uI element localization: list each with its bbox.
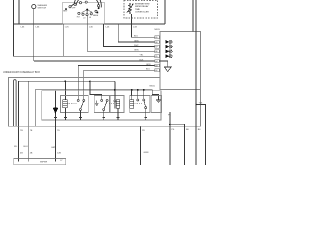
- relay C coil bottom stub: [117, 108, 119, 120]
- wire bottom mid: [139, 126, 141, 165]
- bottom left wires: [19, 105, 206, 166]
- inner relay assembly box: [42, 91, 161, 120]
- bottom wire labels row3: [20, 153, 61, 155]
- MICU box: [160, 32, 201, 90]
- bus connector labels: [21, 27, 138, 29]
- relay coil A riser to bus: [64, 81, 66, 100]
- bus2 branch down: [27, 81, 29, 126]
- wire bottom 2: [27, 126, 29, 158]
- svg-text:GRN: GRN: [134, 50, 139, 52]
- svg-text:UNDER-DASH FUSE/RELAY BOX: UNDER-DASH FUSE/RELAY BOX: [3, 71, 40, 74]
- diode: [53, 107, 57, 113]
- fuse box bus: [19, 81, 115, 126]
- wire labels (color codes) near MICU: [134, 36, 151, 71]
- wire row4 from wiper switch common: [87, 9, 154, 52]
- wire row2: [118, 24, 154, 42]
- mini box around right ground: [151, 96, 162, 113]
- intermittent controller dashed box: [124, 1, 158, 19]
- svg-text:B3: B3: [155, 65, 157, 67]
- wiper switch contact circles: [69, 1, 100, 16]
- relay C contact: [114, 100, 116, 102]
- svg-text:7D: 7D: [57, 130, 60, 132]
- wiper switch spokes: [82, 10, 93, 13]
- wire right C: [196, 105, 205, 166]
- svg-text:BLU: BLU: [24, 146, 29, 148]
- relay A coil: [63, 100, 67, 108]
- svg-text:GRN: GRN: [134, 40, 139, 42]
- svg-text:B2: B2: [155, 70, 157, 72]
- relay D coil: [130, 100, 134, 109]
- relay box C: [109, 96, 124, 113]
- svg-text:B9: B9: [155, 37, 157, 39]
- relay D contacts: [137, 99, 147, 109]
- wire bus riser right: [164, 0, 166, 24]
- svg-text:TIME: TIME: [135, 9, 140, 11]
- relay C contact stub: [114, 102, 116, 109]
- svg-text:MICU: MICU: [155, 29, 161, 31]
- bottom wire labels mid: [14, 146, 149, 154]
- wiper motor box: [14, 159, 66, 166]
- relay B contacts: [101, 99, 108, 110]
- relay A dashed link: [67, 102, 77, 104]
- variable resistor: [127, 3, 134, 14]
- wire left inner from top: [18, 0, 20, 24]
- relay B blade: [104, 101, 107, 108]
- right inner ground: [156, 100, 161, 103]
- motor box pins: [19, 159, 56, 162]
- svg-text:GRN: GRN: [146, 64, 151, 66]
- link junction dots: [114, 89, 145, 91]
- svg-text:GRN: GRN: [144, 152, 149, 154]
- wire row5 from wiper box: [62, 24, 64, 56]
- relay box A: [61, 96, 89, 113]
- svg-text:MICU: MICU: [150, 85, 156, 87]
- svg-text:B7: B7: [155, 47, 157, 49]
- wire row3 from wiper box right: [104, 24, 155, 47]
- outer fuse box: [9, 78, 201, 127]
- relay B riser: [90, 81, 102, 99]
- wire bottom 3: [55, 126, 57, 158]
- fuse F1 loop: [14, 80, 17, 127]
- washer switch row wire: [34, 60, 155, 62]
- wire left outer from top: [14, 0, 155, 56]
- relay D blade: [144, 101, 145, 107]
- wiper switch junction dots: [65, 7, 99, 13]
- svg-text:INTERMITTENT: INTERMITTENT: [135, 3, 150, 5]
- relay box B: [94, 96, 110, 113]
- controller wire stub: [131, 14, 133, 18]
- controller text: [135, 3, 150, 13]
- svg-text:B6: B6: [155, 51, 157, 53]
- svg-text:B5: B5: [155, 56, 157, 58]
- svg-text:WASHER: WASHER: [38, 4, 48, 7]
- relay A coil stub: [64, 108, 66, 120]
- relay contact A1 wire to MICU row7: [78, 65, 155, 99]
- washer switch circle: [32, 5, 36, 9]
- wire bottom right1: [169, 112, 171, 165]
- svg-text:WHT: WHT: [134, 45, 139, 47]
- wiper switch box: [63, 2, 104, 24]
- junction dots on fuse bus: [65, 80, 91, 82]
- relay C dashed link: [109, 102, 116, 104]
- wire jog right: [170, 124, 185, 165]
- svg-text:CONTROLLER: CONTROLLER: [135, 12, 149, 14]
- diode wire: [55, 91, 57, 127]
- washer switch wire: [33, 9, 35, 61]
- stub tick bars: [54, 117, 147, 119]
- MICU input arrows: [166, 40, 173, 58]
- wire right B: [195, 0, 197, 105]
- svg-text:WIPER RELAY: WIPER RELAY: [135, 5, 149, 8]
- svg-text:12B: 12B: [57, 153, 61, 155]
- svg-text:B8: B8: [155, 42, 157, 44]
- junction dots bottom: [169, 104, 197, 126]
- MICU ground hook: [159, 61, 171, 72]
- relay B common stub: [103, 111, 105, 121]
- svg-text:WIPER: WIPER: [40, 162, 48, 164]
- bottom wire labels row1: [20, 102, 203, 132]
- MICU pin boxes: [155, 36, 160, 72]
- risers bus to link: [115, 81, 159, 100]
- relay D coil stub: [131, 96, 133, 100]
- wire row1 from controller: [132, 18, 155, 37]
- relay C coil: [116, 100, 120, 109]
- svg-text:BLK: BLK: [140, 59, 144, 61]
- relay box D: [130, 96, 150, 113]
- wiper switch position labels: [63, 7, 99, 19]
- relay D dashed link: [134, 102, 142, 104]
- svg-text:WASH: WASH: [93, 14, 99, 17]
- wire right B lower: [195, 105, 197, 166]
- relay contact A2 wire to MICU row8: [84, 70, 155, 99]
- svg-text:SWITCH: SWITCH: [38, 7, 47, 9]
- svg-text:BLU: BLU: [146, 69, 150, 71]
- wire right A: [192, 0, 194, 32]
- relay A blade: [81, 101, 84, 108]
- relay B ground: [95, 101, 99, 105]
- relay A contacts: [77, 99, 85, 110]
- svg-text:BLU: BLU: [134, 36, 138, 38]
- relay D common wire down: [145, 109, 147, 120]
- wiper switch rotary arcs: [70, 0, 101, 9]
- link wire with corner: [35, 90, 152, 127]
- svg-text:B4: B4: [155, 61, 157, 63]
- svg-text:GRN: GRN: [51, 147, 56, 149]
- relay A common stub: [79, 111, 81, 121]
- svg-text:C7: C7: [60, 160, 62, 162]
- wire bottom 1: [18, 126, 20, 158]
- bus top horizontal: [14, 23, 166, 25]
- right verticals from top: [193, 0, 196, 105]
